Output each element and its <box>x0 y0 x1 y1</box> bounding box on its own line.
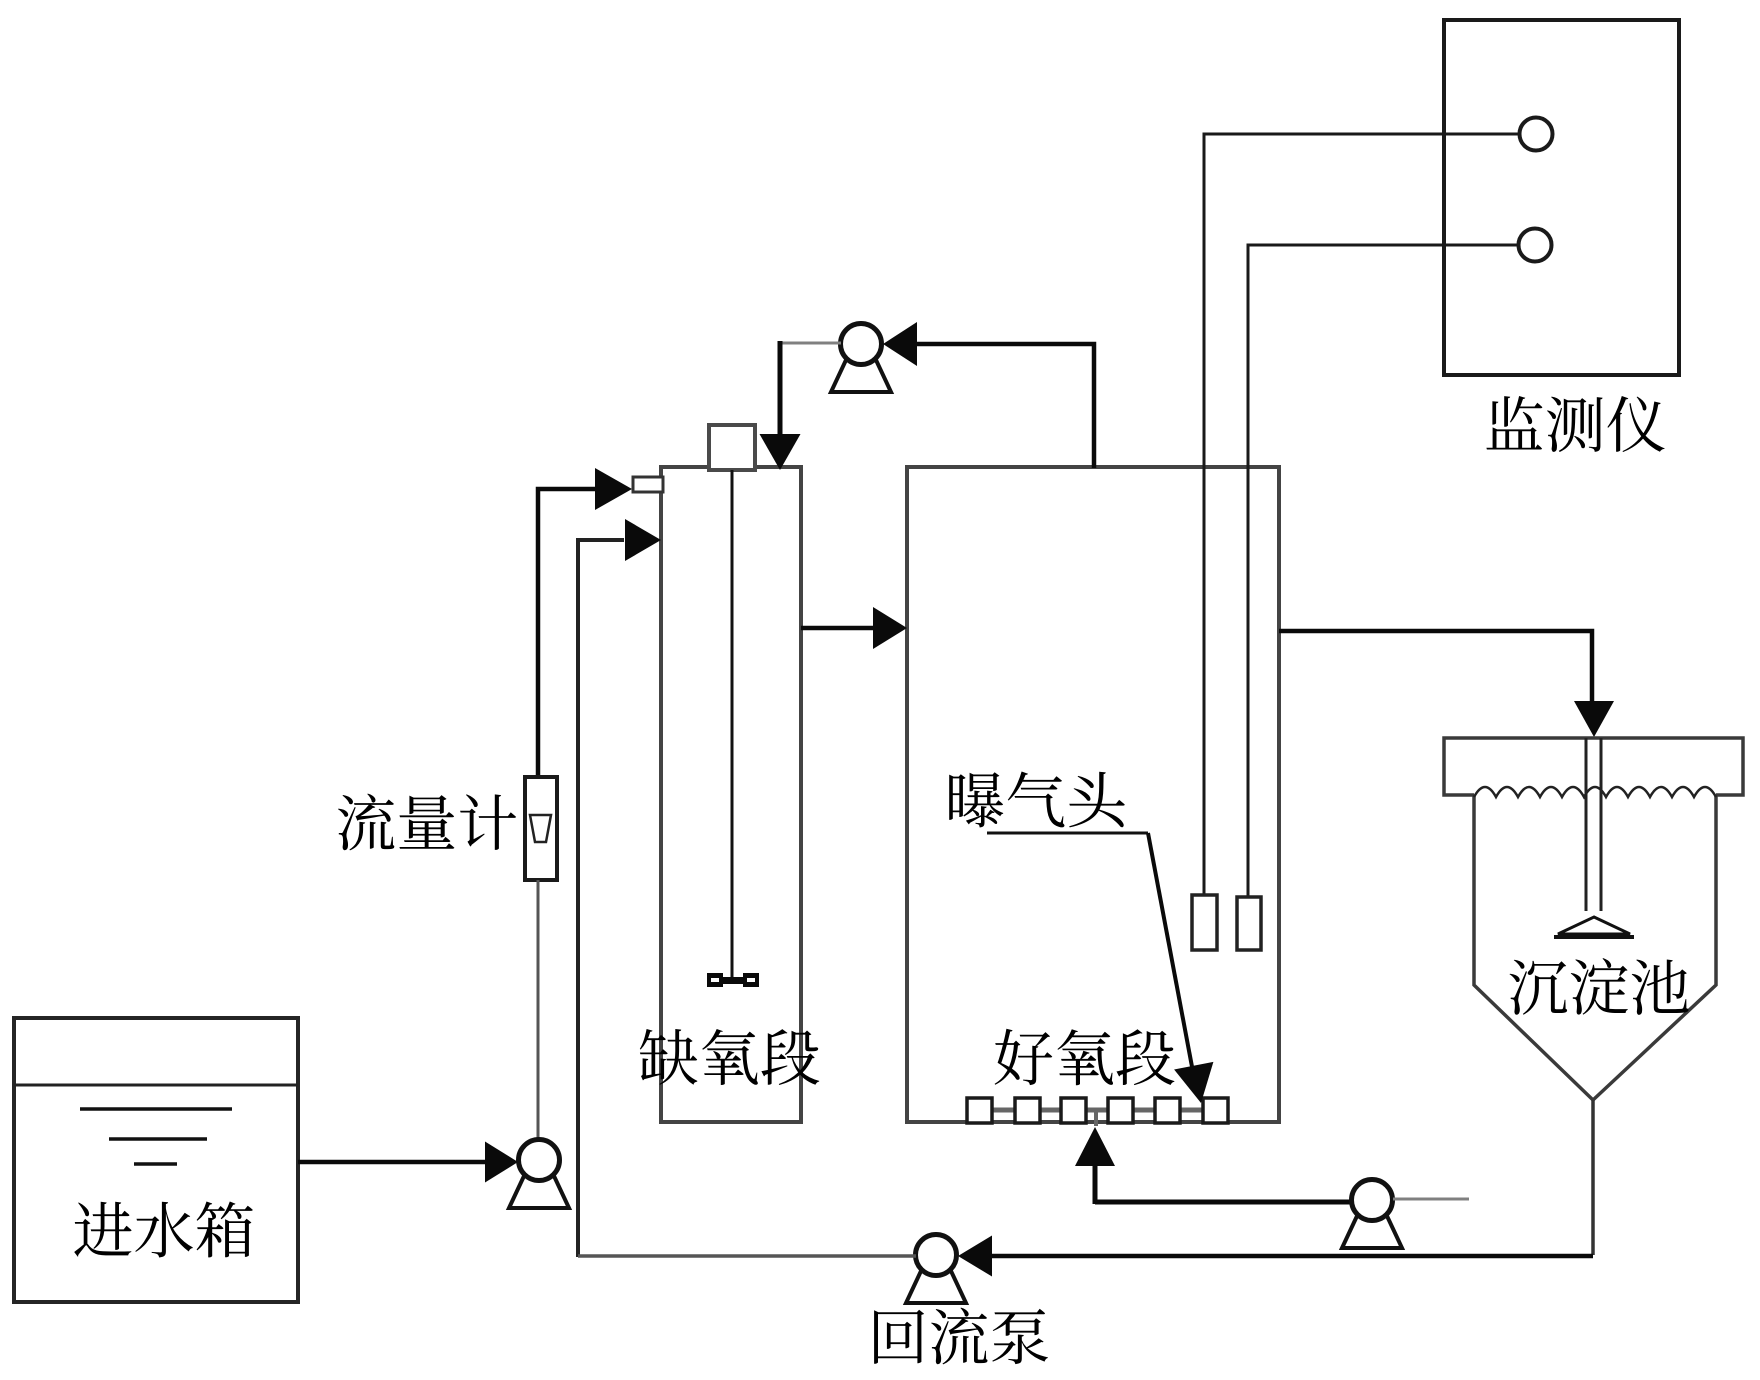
return line pump to riser (gray) <box>578 1254 916 1258</box>
label 缺氧段 <box>640 1029 819 1085</box>
label 沉淀池 <box>1510 958 1689 1015</box>
label 进水箱 <box>74 1202 253 1258</box>
label 曝气头 <box>949 772 1125 828</box>
arrowhead into feed pump <box>485 1142 518 1183</box>
water wave line <box>1474 787 1716 797</box>
stirrer shaft <box>731 470 734 977</box>
center feed pipe line1 <box>1585 738 1588 911</box>
arrowhead into settling tank <box>1574 701 1614 737</box>
sludge pipe from settling tank bottom <box>1591 1100 1595 1255</box>
sensor probe 1 <box>1192 895 1217 950</box>
aeration head squares 曝气头 <box>967 1098 992 1123</box>
stirrer motor box on anoxic tank <box>709 425 755 470</box>
flow meter 流量计 body <box>525 777 557 880</box>
air feed stub through tank bottom <box>1094 1110 1098 1126</box>
arrowhead into inlet stub <box>595 468 632 510</box>
label 监测仪 <box>1486 396 1664 452</box>
reflux pump P3 回流泵 <box>906 1271 966 1303</box>
feed line tank to pump <box>298 1160 487 1165</box>
ripple 2 <box>109 1137 207 1141</box>
feedwell cone <box>1558 917 1630 934</box>
air pump P4 <box>1342 1216 1402 1248</box>
inlet tank 进水箱 <box>14 1018 298 1302</box>
return riser to anoxic second inlet <box>578 540 624 1257</box>
arrowhead into anoxic wall <box>625 519 661 561</box>
label underline <box>987 832 1148 835</box>
leader arrowhead <box>1174 1062 1213 1103</box>
anoxic inlet stub <box>633 477 663 492</box>
ripple 3 <box>134 1162 177 1166</box>
label 回流泵 <box>874 1308 1048 1365</box>
arrowhead into anoxic tank top <box>760 434 801 470</box>
feed pump P2 <box>509 1176 569 1208</box>
arrowhead into recycle pump <box>883 322 917 366</box>
air pump intake (gray) <box>1393 1198 1469 1201</box>
recycle downpipe to anoxic tank <box>778 341 783 436</box>
pipe aerobic top to recycle pump <box>915 344 1094 468</box>
aeration header bar <box>979 1108 1216 1113</box>
monitor instrument box 监测仪 <box>1444 20 1679 375</box>
arrowhead into reflux pump <box>958 1236 992 1277</box>
water surface line <box>14 1084 298 1087</box>
feed line riser from flow meter to anoxic inlet <box>538 489 596 777</box>
return line settling to reflux pump <box>992 1254 1593 1259</box>
recycle pump outlet (gray) <box>780 342 841 345</box>
outflow aerobic to settling tank <box>1279 631 1592 702</box>
center feed pipe line2 <box>1600 738 1603 911</box>
arrow anoxic to aerobic <box>801 626 875 631</box>
anoxic tank 缺氧段 outline <box>661 467 801 1122</box>
monitor terminal circle 1 <box>1520 118 1553 151</box>
internal recycle pump P1 <box>831 360 891 392</box>
ripple 1 <box>80 1107 232 1111</box>
pipe flow meter down to feed pump <box>537 880 540 1140</box>
wire monitor circle2 to pH probe <box>1248 245 1518 897</box>
settling tank 沉淀池 collar <box>1444 738 1743 795</box>
settling tank body <box>1474 795 1716 1100</box>
arrowhead up into aeration header <box>1075 1127 1115 1166</box>
label 流量计 <box>338 794 516 851</box>
aerobic tank 好氧段 outline <box>907 467 1279 1122</box>
label 好氧段 <box>995 1029 1175 1085</box>
air line to aeration heads <box>1095 1200 1351 1205</box>
monitor terminal circle 2 <box>1519 229 1552 262</box>
flow meter float <box>530 815 551 842</box>
leader line to aeration head <box>1148 833 1193 1072</box>
stirrer paddle <box>707 977 759 984</box>
sensor probe 2 <box>1237 897 1261 950</box>
wire monitor circle1 to DO probe <box>1204 134 1519 895</box>
